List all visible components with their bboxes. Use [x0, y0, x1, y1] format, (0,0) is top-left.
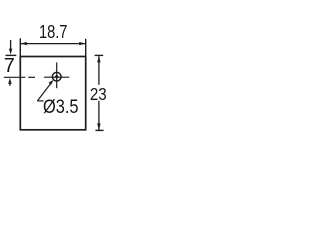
hole centerline horizontal left extension [4, 76, 26, 78]
extension line right (width dim) [85, 39, 87, 57]
extension line left (width dim) [19, 38, 21, 56]
hole centerline horizontal short dash [28, 76, 35, 78]
svg-text:23: 23 [90, 84, 107, 104]
extension tick top (7 dim) [6, 54, 17, 56]
arrow below pointing up (7 dim) [9, 83, 11, 86]
extension tick bottom right (height dim) [95, 129, 103, 131]
leader arrowhead at hole edge [49, 80, 54, 85]
hole centerline horizontal main segment [44, 76, 69, 78]
dimension line 18.7 [21, 43, 85, 45]
leader line to hole [37, 83, 51, 101]
extension tick top right (height dim) [95, 54, 104, 56]
hole centerline vertical [56, 62, 58, 88]
mounting hole circle [52, 72, 61, 81]
svg-text:18.7: 18.7 [39, 22, 68, 43]
package body outline [20, 57, 85, 130]
dimension line 23 lower segment [98, 101, 100, 130]
arrowhead down (height dim) [97, 123, 100, 130]
svg-text:Ø3.5: Ø3.5 [43, 97, 79, 118]
dimension line 23 upper segment [98, 56, 100, 85]
hole center dot [55, 75, 58, 78]
arrowhead up (height dim) [97, 56, 100, 63]
arrowhead left (width dim) [21, 42, 27, 45]
svg-text:7: 7 [4, 55, 15, 77]
arrow above pointing down (7 dim) [10, 40, 12, 50]
arrowhead right (width dim) [79, 42, 85, 45]
